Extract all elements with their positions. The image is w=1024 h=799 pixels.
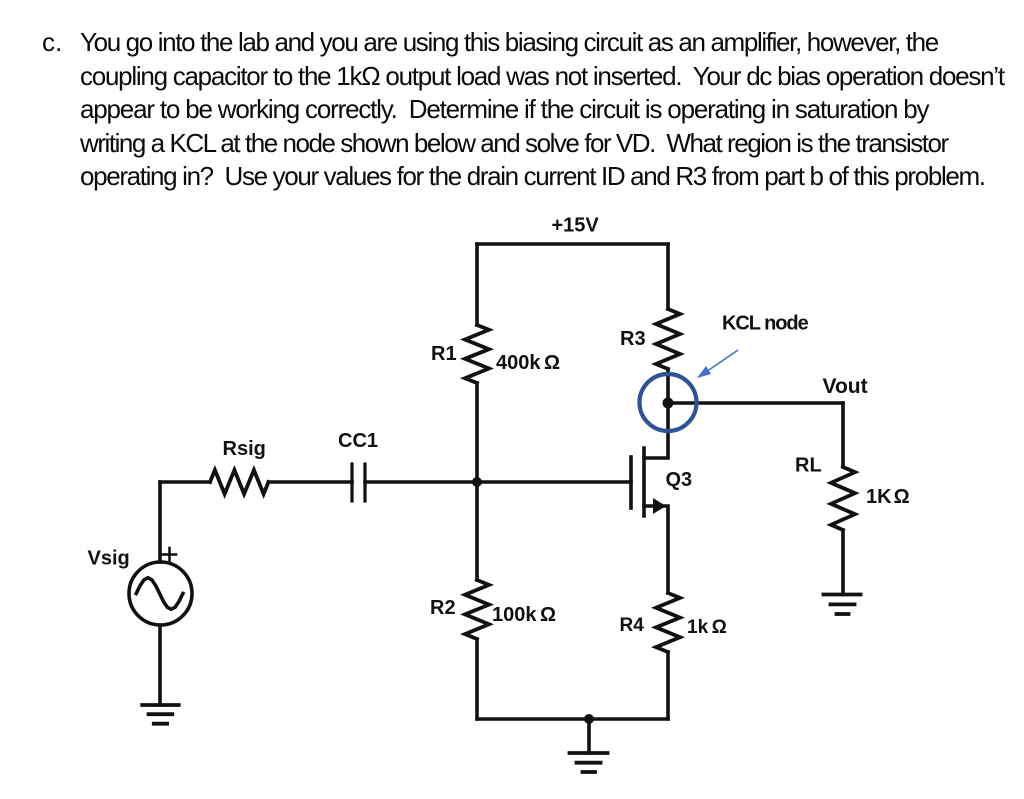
svg-text:R2: R2 bbox=[430, 597, 456, 619]
svg-text:1KΩ: 1KΩ bbox=[866, 486, 910, 508]
svg-text:KCL node: KCL node bbox=[722, 313, 809, 335]
svg-text:R1: R1 bbox=[431, 343, 457, 365]
svg-text:CC1: CC1 bbox=[338, 430, 378, 452]
svg-text:+15V: +15V bbox=[552, 215, 600, 237]
svg-text:R4: R4 bbox=[620, 615, 645, 636]
svg-text:Vsig: Vsig bbox=[88, 548, 130, 570]
svg-text:100kΩ: 100kΩ bbox=[492, 604, 556, 626]
svg-text:Vout: Vout bbox=[823, 375, 868, 398]
svg-text:RL: RL bbox=[795, 455, 822, 477]
svg-text:Rsig: Rsig bbox=[223, 438, 266, 460]
svg-text:400kΩ: 400kΩ bbox=[496, 352, 560, 374]
svg-text:Q3: Q3 bbox=[666, 469, 693, 491]
svg-text:R3: R3 bbox=[620, 328, 646, 350]
svg-text:1kΩ: 1kΩ bbox=[687, 617, 727, 638]
